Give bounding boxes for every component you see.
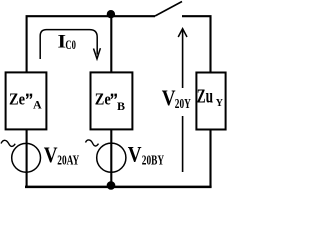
- voltage arrow V20Y lower segment: [182, 116, 184, 172]
- node: bottom junction dot: [107, 181, 116, 190]
- current loop arrow I_C0: [40, 30, 97, 59]
- svg-text:Y: Y: [216, 98, 224, 109]
- svg-text:B: B: [117, 99, 125, 113]
- svg-text:Ze: Ze: [9, 90, 25, 109]
- tilde mark of source V20BY: [86, 140, 99, 146]
- svg-text:20BY: 20BY: [142, 153, 164, 168]
- svg-text:V: V: [162, 85, 176, 110]
- svg-text:Zu: Zu: [197, 85, 213, 107]
- wire: Ze"B bottom through source to bottom rail: [110, 129, 112, 187]
- svg-text:A: A: [33, 98, 42, 112]
- source V20BY circle: [97, 143, 126, 172]
- node: top junction dot: [107, 10, 115, 18]
- wire: top junction down to Ze"B: [110, 16, 112, 73]
- svg-text:Ze: Ze: [95, 90, 111, 109]
- source V20AY circle: [12, 143, 41, 172]
- wire: Ze"A bottom through source to bottom rail: [26, 129, 28, 187]
- svg-text:V: V: [44, 142, 58, 167]
- svg-text:20Y: 20Y: [175, 97, 191, 112]
- switch S (open blade): [155, 2, 182, 17]
- wire: switch right contact to ZuY top: [182, 16, 211, 72]
- wire: ZuY bottom to bottom rail: [209, 129, 211, 187]
- tilde mark of source V20AY: [1, 140, 15, 146]
- impedance box Ze"A: [6, 72, 47, 129]
- wire: bottom rail: [25, 186, 212, 189]
- voltage arrow V20Y upper segment with arrowhead: [182, 30, 184, 88]
- impedance box Ze"B: [91, 72, 133, 129]
- svg-text:C0: C0: [65, 37, 76, 52]
- svg-text:V: V: [128, 142, 142, 167]
- impedance box ZuY: [196, 73, 225, 130]
- wire: top rail left section with drop to Ze"A: [27, 16, 155, 72]
- svg-text:20AY: 20AY: [57, 153, 79, 168]
